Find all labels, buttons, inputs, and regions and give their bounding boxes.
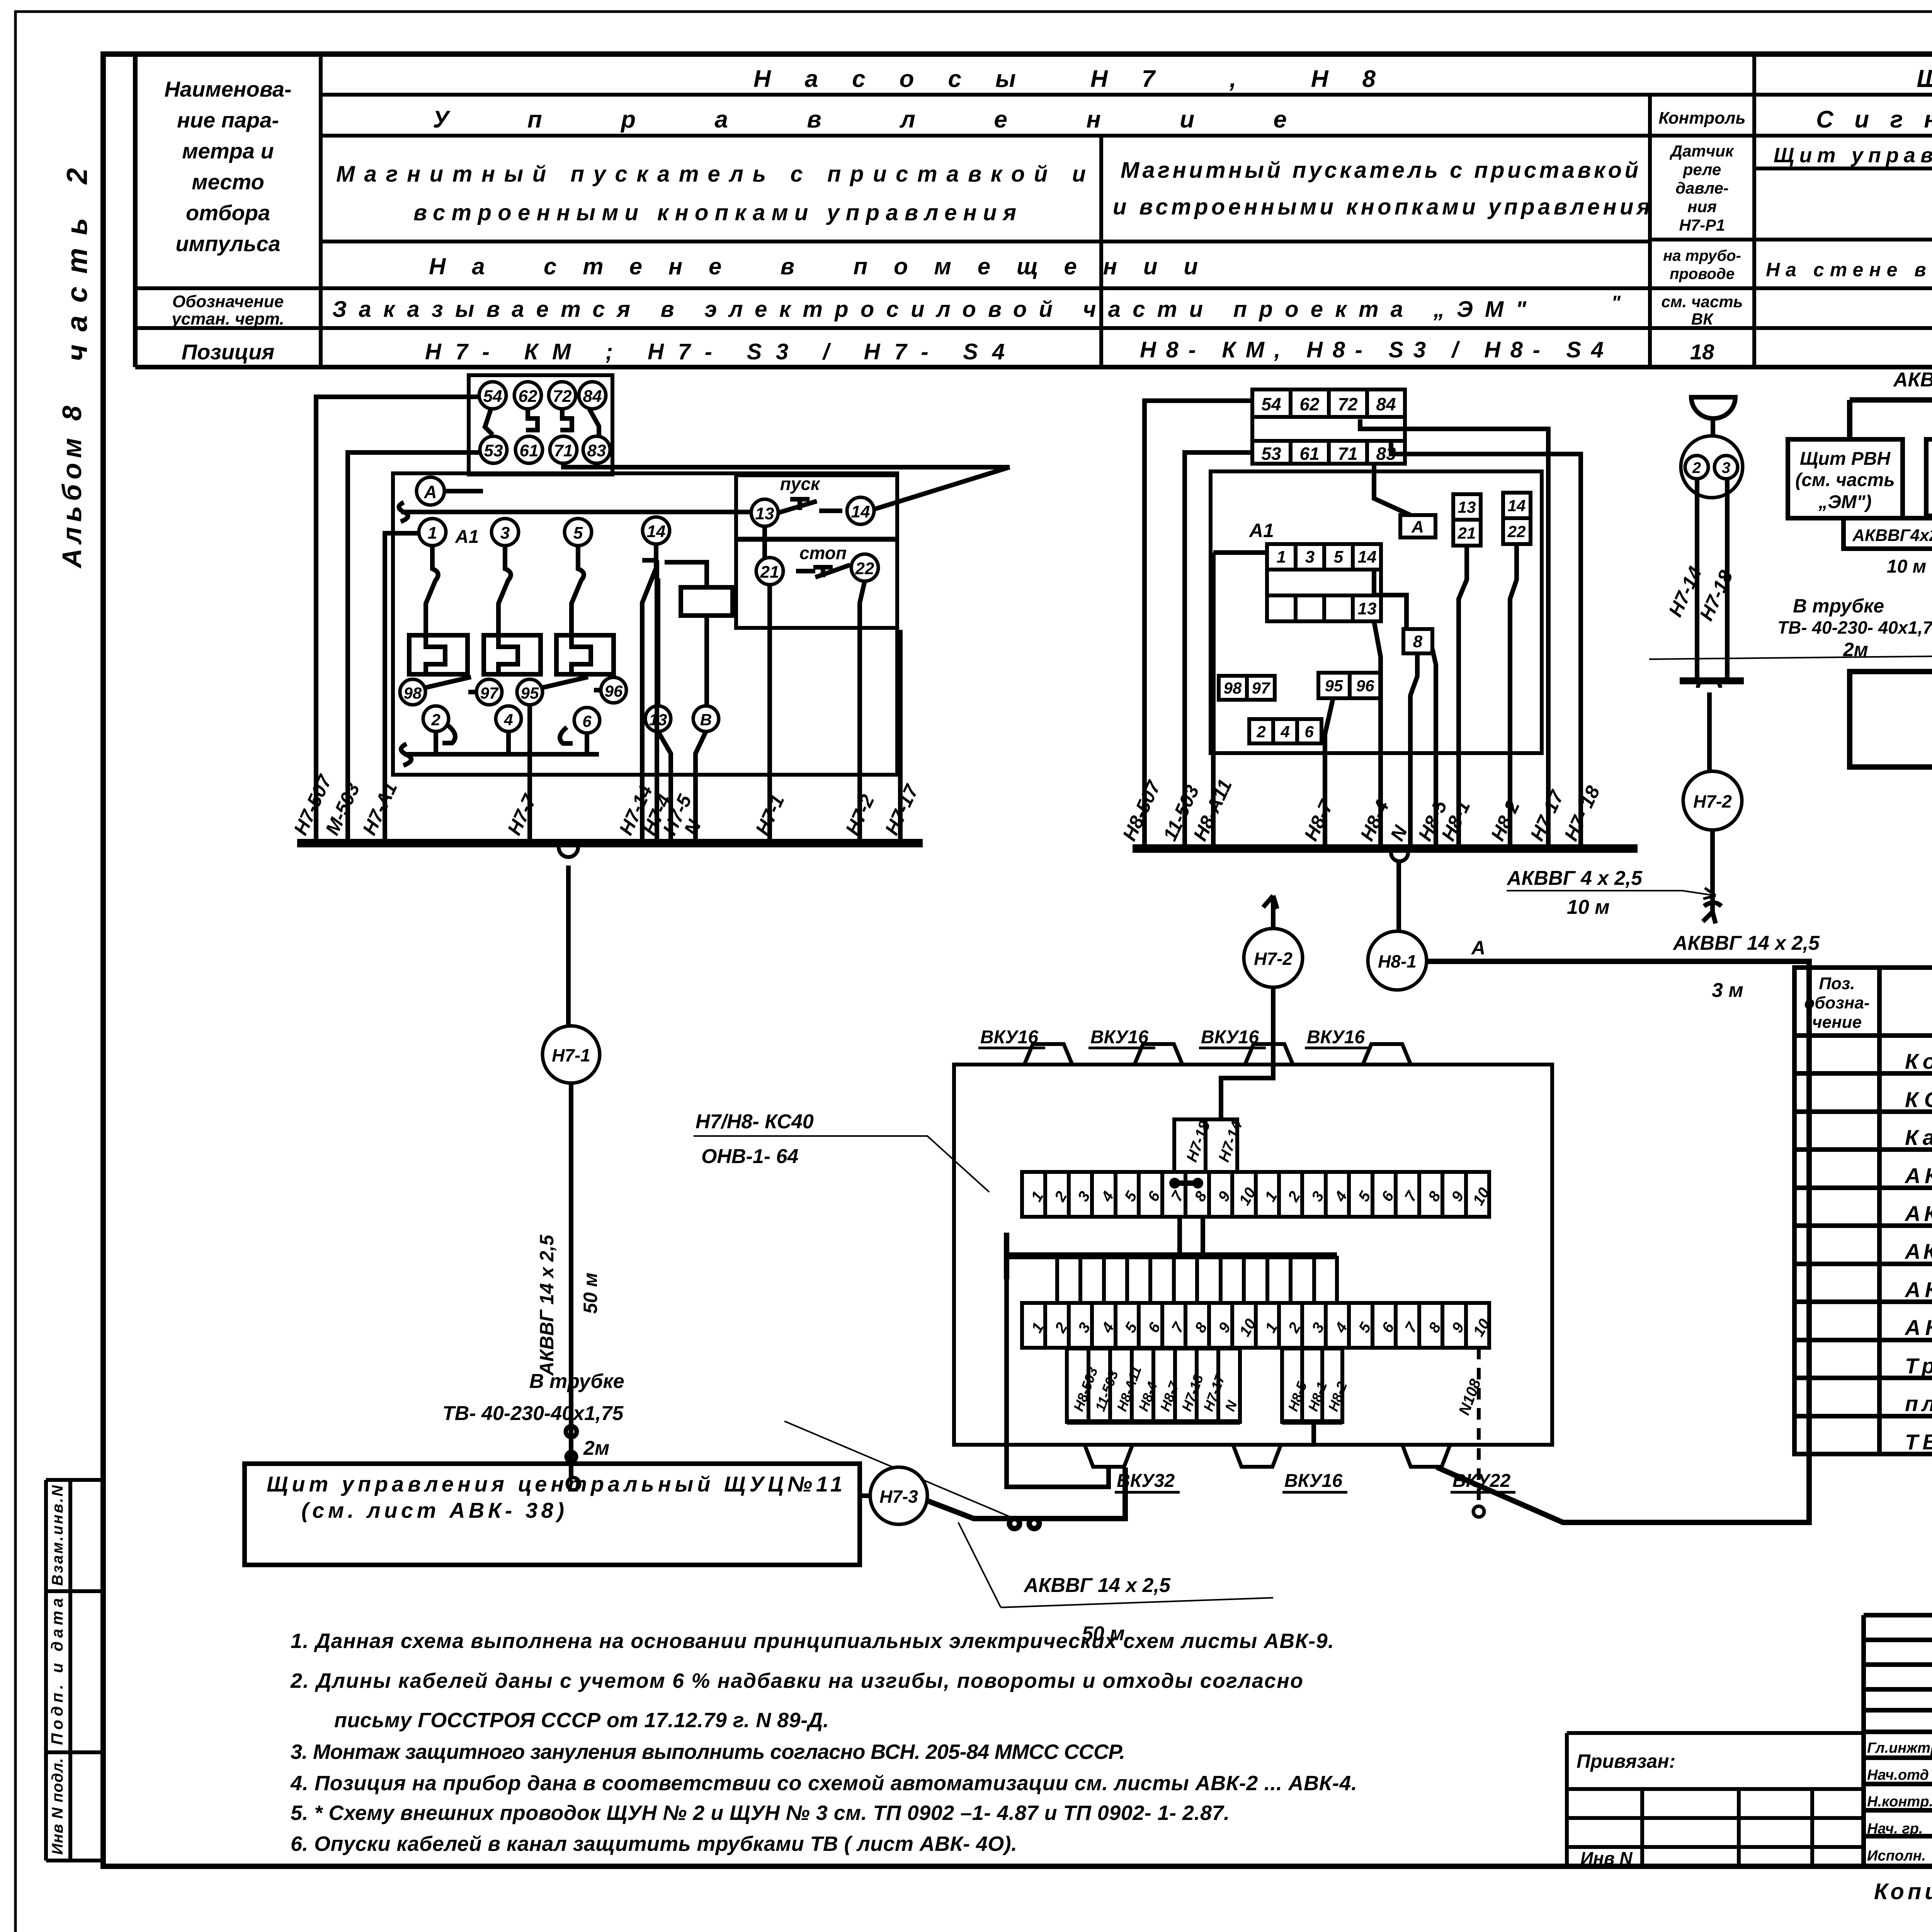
svg-text:импульса: импульса [175,231,280,256]
junction dots cells 7-8 [1175,1180,1198,1186]
node H7-2 sensor [1683,771,1742,830]
parts row 1 [1905,1049,1932,1073]
svg-text:стоп: стоп [799,543,847,563]
margin stamp table [46,1480,102,1861]
bottom collector wire [401,731,599,765]
pin 6 [574,707,600,733]
pole 3 [498,546,511,634]
svg-text:В: В [700,711,712,729]
svg-text:на трубо-: на трубо- [1663,247,1741,264]
svg-text:письму ГОССТРОЯ СССР от: письму ГОССТРОЯ СССР от 17.12.79 г. N 89… [334,1709,829,1732]
cable tag Н8-4 [1132,1349,1160,1422]
svg-text:14: 14 [851,502,870,521]
wire H7-14 [642,544,656,843]
wire H8-4 [1374,621,1381,849]
bus H8 junction [1391,853,1408,861]
sensor dome [1691,397,1735,418]
svg-text:53: 53 [1261,444,1281,464]
cable tag Н8-7 [1153,1349,1182,1422]
coil strip row2 [1267,570,1381,595]
tag 22 [1503,518,1531,544]
svg-text:95: 95 [521,684,539,702]
label VKU16 [978,1027,1045,1048]
wire M-503 [348,452,480,843]
node A [417,477,444,505]
svg-text:1: 1 [428,524,437,543]
parts row 9 [1905,1354,1932,1378]
parts row 5 [1904,1201,1932,1226]
cable AKVVB 5x2.5 [1850,369,1932,429]
wire strip to A box [1374,464,1410,515]
svg-text:АКВВГ 7 х 2,5: АКВВГ 7 х 2,5 [1904,1201,1932,1226]
wire H8-A11 [1213,553,1267,849]
svg-text:ВКУ16: ВКУ16 [1307,1027,1365,1048]
svg-text:реле: реле [1683,160,1721,179]
svg-text:ВКУ16: ВКУ16 [1090,1027,1148,1048]
svg-text:50 м: 50 м [580,1272,601,1314]
cable tag AKVVG4x2.5 [1844,518,1932,577]
control rail with hook [399,499,765,522]
svg-text:3 м: 3 м [1712,979,1743,1002]
wire tags to VKU22 [1311,1422,1316,1445]
pin 13 lower [645,706,671,731]
cable tag Н8-2 [1322,1349,1350,1422]
svg-text:6. Опуски кабелей в кан: 6. Опуски кабелей в канал защитить трубк… [291,1832,1017,1855]
svg-text:ВКУ16: ВКУ16 [1201,1027,1259,1048]
coil strip row3 with 13 [1267,595,1381,621]
title block grid [1864,1615,1932,1866]
tag 14 [1503,493,1531,518]
parameter table grid [135,54,1932,367]
svg-text:ВК: ВК [1691,310,1714,328]
svg-text:3: 3 [1305,548,1315,566]
wire H8-7 [1325,698,1333,849]
pin 14 pusk [847,497,874,524]
stop sub-box [736,540,897,628]
box SCHUN2 [1926,439,1932,516]
wire H7-7 [527,705,532,843]
wire H8-5 [1432,649,1436,849]
cable tag Н8-503 [1067,1349,1101,1422]
wire H8-1 right loop to VKU22 [1427,961,1809,1522]
wire H8-1 [1459,546,1467,849]
terminal 71 [550,436,577,463]
wire into RVN2 [1847,400,1852,439]
wire H7-2 arrow up [1263,896,1277,929]
svg-text:4: 4 [1280,723,1289,741]
svg-text:61: 61 [520,441,539,460]
thermal element 3 [556,635,614,674]
svg-text:чение: чение [1812,1013,1862,1032]
parts header poz [1804,974,1869,1032]
wire H7 cable down [566,866,571,1026]
label VKU16 [1305,1027,1372,1048]
privyazan block [1567,1733,1864,1866]
svg-text:83: 83 [587,441,606,460]
wire H7-A1 [385,533,419,843]
svg-text:13: 13 [1358,599,1377,618]
label AKVVG 14x2.5 3m [1672,932,1820,1002]
box Shchit RVN 2 [1788,439,1903,518]
svg-text:ТВ- 40-230-40х1,75: ТВ- 40-230-40х1,75 [442,1402,624,1425]
svg-text:АКВВГ 14 х 2,5: АКВВГ 14 х 2,5 [1023,1574,1171,1597]
svg-text:96: 96 [605,682,623,700]
svg-text:В трубке: В трубке [1793,595,1884,617]
svg-text:6: 6 [1304,723,1314,741]
svg-text:(см. часть: (см. часть [1795,470,1895,490]
svg-text:отбора: отбора [186,201,270,225]
svg-text:В трубке: В трубке [529,1370,624,1393]
sensor body [1681,436,1743,498]
wire H7-2 into box [1221,987,1273,1119]
pin 22 [851,554,878,581]
svg-text:АКВВГ 14 х 2,5: АКВВГ 14 х 2,5 [536,1234,558,1376]
parts row 8 [1904,1315,1932,1340]
coil strip 1-3-5-14 [1267,544,1381,570]
svg-text:5. * Схему внешних провод: 5. * Схему внешних проводок ЩУН № 2 и ЩУ… [291,1801,1230,1825]
terminal 61 [515,436,543,463]
svg-text:84: 84 [583,387,602,406]
bus H8 [1133,844,1638,853]
parts row 3 [1905,1125,1932,1150]
junction box KC-40 [954,1065,1552,1445]
svg-text:71: 71 [554,441,573,460]
svg-text:встроенными кнопками управле: встроенными кнопками управления [413,200,1016,225]
cable label AKVVG4x2.5 10m [1506,867,1716,918]
svg-text:Гл.инжтр.: Гл.инжтр. [1867,1740,1932,1756]
svg-text:4: 4 [503,711,513,729]
sensor junction bar [1680,677,1744,684]
label VKU16 [1199,1027,1266,1048]
svg-text:2м: 2м [583,1437,609,1459]
svg-text:Поз.: Поз. [1819,974,1855,993]
svg-text:21: 21 [760,563,779,582]
wire H8-507 [1145,401,1252,849]
bushing ВКУ16 bottom [1233,1445,1281,1467]
upper terminal strip [1022,1172,1489,1217]
cable tag H7-18 [1174,1119,1214,1172]
svg-text:97: 97 [1252,679,1270,697]
svg-text:95: 95 [1325,677,1343,695]
cell magnetic starter H7 [336,162,1086,225]
panel SCHUC11 [245,1464,860,1565]
svg-text:10 м: 10 м [1887,556,1926,577]
svg-text:Н7/Н8- КС40: Н7/Н8- КС40 [696,1111,814,1133]
lower terminal strip [1022,1303,1489,1348]
svg-text:72: 72 [1338,394,1358,414]
svg-text:ВКУ16: ВКУ16 [1284,1471,1342,1491]
terminal 72 [549,382,576,409]
svg-text:проводе: проводе [1670,265,1735,282]
svg-text:Н7-3: Н7-3 [879,1486,918,1507]
svg-text:Н7-2: Н7-2 [1693,791,1732,811]
svg-text:Контроль: Контроль [1658,109,1745,128]
wire H8-1 from bus [1396,861,1401,931]
svg-text:место: место [192,170,264,194]
parts row 2 [1905,1087,1932,1112]
sensor stem [1711,418,1715,436]
starter outer box H7 [393,473,897,775]
svg-text:АКВВБ 5 х 2,5: АКВВБ 5 х 2,5 [1904,1277,1932,1302]
contact blade 62-61 [526,409,537,430]
sensor pin 2 [1685,456,1708,479]
svg-text:Привязан:: Привязан: [1577,1750,1675,1772]
svg-text:4. Позиция на прибор дан: 4. Позиция на прибор дана в соответствии… [290,1772,1357,1795]
svg-text:13: 13 [755,504,774,523]
contact blade 72-71 [560,409,572,430]
svg-text:1. Данная схема выполнена: 1. Данная схема выполнена на основании п… [291,1629,1334,1653]
terminal 54 [479,382,506,409]
svg-text:98: 98 [1224,679,1242,697]
label AKVVG 14x2.5 50m bottom [958,1522,1273,1645]
parts row 11 [1905,1430,1932,1454]
svg-text:22: 22 [1507,522,1526,541]
svg-text:8: 8 [1413,632,1423,651]
label v trubke bottom [442,1370,1012,1518]
sensor pin 3 [1714,456,1738,479]
wire H7-3 to VKU32 [927,1468,1125,1529]
svg-text:54: 54 [1261,394,1281,414]
svg-text:пуск: пуск [780,474,821,494]
terminal block H8 [1252,389,1405,464]
wire to H7-17 [1360,419,1548,849]
wire H7-17 [898,630,903,843]
svg-text:Подп. и дата: Подп. и дата [48,1598,66,1745]
pusk sub-box [736,475,897,539]
pin 3 [492,519,519,546]
pin 21 [756,558,783,585]
svg-text:Датчик: Датчик [1670,142,1734,160]
svg-text:АКВВГ 4 х 2,5: АКВВГ 4 х 2,5 [1506,867,1643,889]
svg-text:21: 21 [1458,524,1476,542]
svg-text:18: 18 [1690,340,1714,364]
bus H7 [297,839,923,847]
strip 2-4-6 [1249,719,1321,743]
cell na truboprovode [1663,247,1741,282]
pole 1 [426,546,438,634]
svg-text:72: 72 [553,387,572,406]
bushing VKU16 top [1245,1044,1293,1065]
table header name-of-parameter [164,77,291,256]
svg-text:Наименова-: Наименова- [164,77,291,101]
svg-text:14: 14 [1508,497,1526,515]
dashed wire N108 [1477,1348,1481,1507]
cell sm chast VK [1661,293,1743,328]
svg-text:устан. черт.: устан. черт. [171,310,284,328]
svg-text:давле-: давле- [1675,179,1729,197]
thermal element 1 [409,635,468,674]
svg-text:Н8-1: Н8-1 [1378,951,1417,971]
wire N H8 [1410,653,1417,849]
svg-text:14: 14 [647,522,666,541]
svg-text:98: 98 [404,684,422,702]
svg-text:А1: А1 [1248,520,1274,541]
title name row [1867,1740,1932,1756]
tag group underline [1067,1419,1342,1425]
svg-text:ЩУН №2: ЩУН №2 [1917,65,1932,92]
parts row 4 [1904,1163,1932,1188]
svg-text:Щит РВН: Щит РВН [1800,449,1891,469]
svg-text:2: 2 [1692,459,1701,476]
wire H7-14 sensor [1695,479,1699,681]
svg-text:84: 84 [1376,394,1396,414]
earth bar drops [1057,1256,1337,1303]
svg-text:АКВВГ 14 х 2,5: АКВВГ 14 х 2,5 [1672,932,1820,954]
svg-text:ние пара-: ние пара- [177,108,279,132]
svg-text:5: 5 [573,524,583,543]
svg-text:ВКУ16: ВКУ16 [980,1027,1038,1048]
svg-text:АКВВБ 5 х 2,5: АКВВБ 5 х 2,5 [1893,369,1932,391]
label v trubke top [1649,595,1932,660]
svg-text:14: 14 [1358,548,1377,566]
tag 8 [1403,629,1432,653]
tag 13 [1453,494,1481,520]
pin 95 [517,679,543,705]
svg-text:6: 6 [582,712,592,730]
svg-text:2: 2 [1256,723,1265,741]
terminal 53 [480,436,507,463]
wire 11-503 [1185,452,1252,849]
wire H7-5 [658,731,671,843]
tag 21 [1453,520,1481,546]
wire from terminal 71 right [563,463,1010,509]
node H8-1 [1368,931,1427,990]
svg-text:71: 71 [1338,444,1357,464]
title name row [1867,1848,1932,1864]
svg-text:АКВВГ 14 х 2,5: АКВВГ 14 х 2,5 [1904,1239,1932,1264]
svg-text:метра и: метра и [182,139,274,163]
contact blade 84-83 [589,409,599,436]
wire H7-18 sensor [1725,479,1730,681]
svg-text:ТВ- 40-230- 40х1,75: ТВ- 40-230- 40х1,75 [1777,617,1932,638]
cell pressure sensor [1670,142,1734,234]
pusk button symbol [778,499,842,513]
svg-text:ВКУ22: ВКУ22 [1452,1471,1510,1491]
pin 13 pusk [751,499,778,526]
cable tag Н7-18 [1175,1349,1206,1422]
starter outer box H8 [1211,471,1542,753]
svg-text:": " [1611,292,1621,313]
svg-text:1: 1 [1277,548,1286,566]
svg-text:Н7-2: Н7-2 [1254,949,1293,969]
terminal 84 [579,382,606,409]
cable tag 11-503 [1088,1349,1121,1422]
pin 14 [643,517,670,544]
svg-text:Н7-Р1: Н7-Р1 [1679,216,1725,234]
svg-text:ВКУ32: ВКУ32 [1117,1471,1175,1491]
wire H7-2 [860,581,865,843]
terminal circle on SCHUC11 [567,1478,580,1490]
svg-text:Щит управления центральный: Щит управления центральный ЩУЦ№11 [267,1472,842,1496]
cable tag Н8-1 [1302,1349,1330,1422]
label KC40 [694,1111,989,1192]
title name row [1867,1821,1932,1837]
node A box [1400,515,1435,537]
svg-text:Инв N: Инв N [1580,1848,1633,1868]
svg-text:3. Монтаж защитного занул: 3. Монтаж защитного зануления выполнить … [291,1740,1125,1764]
svg-text:96: 96 [1356,677,1374,695]
svg-text:Обозначение: Обозначение [172,292,284,311]
parts row 7 [1904,1277,1932,1302]
pin 2 [423,706,449,731]
svg-text:3: 3 [1722,459,1730,476]
ground hook pin6 [560,727,573,743]
svg-text:А: А [423,482,437,502]
svg-text:см. часть: см. часть [1661,293,1743,311]
svg-text:Инв N подл.: Инв N подл. [49,1758,66,1855]
pin 98 [400,679,425,705]
svg-text:АКВВГ4х2,5: АКВВГ4х2,5 [1852,526,1932,545]
node H7-1 [543,1026,600,1083]
svg-text:62: 62 [1299,394,1320,414]
pin 4 [496,706,521,731]
bushing VKU16 top [1363,1044,1411,1065]
title name row [1867,1767,1932,1783]
svg-text:Н.контр.: Н.контр. [1867,1794,1932,1810]
svg-text:61: 61 [1299,444,1319,464]
svg-text:А1: А1 [455,527,479,547]
svg-text:Н7-1: Н7-1 [552,1045,590,1065]
ground hook pin2 [442,726,455,743]
bushing VKU16 top [1134,1044,1182,1065]
svg-text:54: 54 [483,387,502,406]
wire strip to earth bar [1180,1217,1203,1256]
svg-text:97: 97 [480,684,499,702]
svg-text:5: 5 [1334,548,1344,566]
svg-text:АКВВГ 4 х 2,5: АКВВГ 4 х 2,5 [1904,1163,1932,1188]
svg-text:Нач. гр.: Нач. гр. [1867,1821,1923,1837]
svg-text:13: 13 [1458,498,1476,516]
wire coil to B [704,616,709,706]
overload blade 95-96 [542,677,601,690]
svg-text:Нач.отд: Нач.отд [1867,1767,1929,1783]
node H7-2 mid [1244,929,1303,987]
terminal 62 [514,382,541,409]
thermal element 2 [484,635,541,674]
svg-text:2: 2 [431,711,440,729]
strip 95-96 [1318,673,1381,698]
terminal 83 [583,436,610,463]
svg-text:10 м: 10 м [1567,896,1610,918]
bus H7 junction [559,847,578,857]
overload blade 98-97 [425,677,475,692]
cable tag Н8-5 [1282,1349,1310,1422]
wire H7-2 down arrow [1703,830,1721,923]
svg-text:Позиция: Позиция [182,340,275,364]
svg-text:АКВВБ 7 х 2,5: АКВВБ 7 х 2,5 [1904,1315,1932,1340]
cable tag Н8-А11 [1110,1349,1145,1422]
wire earth to VKU32 [1007,1279,1109,1487]
svg-text:„ЭМ"): „ЭМ") [1818,492,1871,512]
wire from A [444,489,483,493]
svg-text:ния: ния [1687,197,1717,216]
svg-text:ОНВ-1- 64: ОНВ-1- 64 [701,1145,798,1168]
pin 1 [419,519,446,546]
wire coil top [665,562,707,587]
wire 13 riser [656,578,660,706]
svg-text:62: 62 [519,387,537,406]
svg-text:22: 22 [855,559,874,578]
wire H7-1 [767,585,772,843]
pin 5 [565,519,592,546]
cable tag H7-14 [1206,1119,1246,1172]
svg-text:А: А [1471,937,1485,959]
svg-text:3: 3 [500,524,510,543]
earth bar [1007,1252,1337,1259]
wire N [696,731,706,843]
wire sensor down [1707,692,1712,772]
parts list table grid [1794,968,1932,1454]
